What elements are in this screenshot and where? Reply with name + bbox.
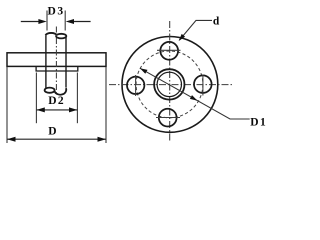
dimension D3 extension line left xyxy=(46,11,48,31)
hub top hole ellipse xyxy=(56,34,66,39)
front view vertical centerline xyxy=(169,21,171,142)
dimension D3 extension line right xyxy=(64,11,66,31)
hub bottom hole ellipse xyxy=(45,88,55,93)
svg-text:D2: D2 xyxy=(48,95,65,107)
dimension D extension line left xyxy=(6,67,8,143)
dimension D extension line right xyxy=(105,67,107,143)
bolt hole bottom xyxy=(159,109,177,127)
bolt hole top tick xyxy=(157,49,181,51)
hub cylinder left edge xyxy=(45,35,47,88)
bolt circle (dashed) xyxy=(136,51,203,118)
dimension D line with arrows xyxy=(7,137,106,142)
bolt hole bottom tick xyxy=(156,117,180,119)
label D2 xyxy=(48,95,65,107)
dimension D2 line with arrows xyxy=(37,107,78,112)
flange outer circle (front view) xyxy=(122,37,218,133)
hub bottom rim arc xyxy=(55,88,67,95)
bolt hole right tick xyxy=(202,75,204,96)
hub bore circle (front view) xyxy=(157,72,181,96)
label D xyxy=(48,125,56,137)
dimension D3 left arrow xyxy=(21,19,47,24)
hub top rim arc xyxy=(46,33,57,35)
svg-text:d: d xyxy=(213,16,220,28)
svg-text:D: D xyxy=(48,125,56,137)
bolt hole right xyxy=(194,75,212,93)
bolt hole left xyxy=(127,77,144,94)
dimension D2 extension line right xyxy=(76,73,78,124)
hub outer circle (front view) xyxy=(154,69,184,99)
dimension D1 diagonal line and leader xyxy=(140,68,250,119)
svg-text:D1: D1 xyxy=(250,117,267,129)
label D1 xyxy=(250,117,267,129)
side view vertical centerline xyxy=(55,27,57,93)
front view horizontal centerline xyxy=(109,84,232,86)
bolt hole left tick xyxy=(135,75,137,96)
label d xyxy=(213,16,220,28)
svg-text:D3: D3 xyxy=(48,6,65,18)
leader for d xyxy=(179,20,212,41)
label D3 xyxy=(48,6,65,18)
dimension D3 right arrow xyxy=(66,19,91,24)
bolt hole top xyxy=(160,42,178,60)
bottom boss step xyxy=(36,66,78,71)
dimension D2 extension line left xyxy=(35,73,37,124)
hub cylinder right edge xyxy=(65,36,67,87)
flange plate (side view) xyxy=(7,53,106,67)
